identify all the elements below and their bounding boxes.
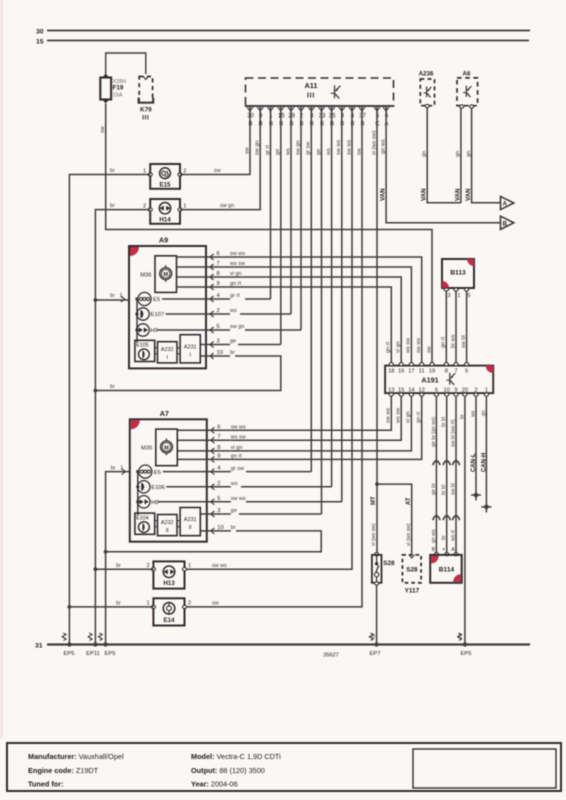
svg-text:1: 1 xyxy=(458,293,461,299)
wire br A7 pin 10 return to ground bus xyxy=(104,531,322,554)
svg-text:M36: M36 xyxy=(140,272,151,278)
wire br H14 to ground bus xyxy=(95,203,150,644)
wire gr-rt A9 pin 4 xyxy=(245,298,271,300)
svg-text:16: 16 xyxy=(398,369,404,375)
wire gn CAN-H from A191 pin 1 xyxy=(481,396,492,513)
svg-text:35627: 35627 xyxy=(323,653,339,659)
heater control unit A9 xyxy=(110,236,245,369)
svg-text:br: br xyxy=(110,168,115,174)
svg-text:6: 6 xyxy=(435,387,438,393)
svg-text:vi gn: vi gn xyxy=(396,341,402,353)
svg-text:2: 2 xyxy=(146,563,149,569)
diagram number 35627 xyxy=(323,653,339,659)
svg-text:B: B xyxy=(503,221,508,227)
svg-text:M: M xyxy=(163,272,168,278)
svg-text:Model: Vectra-C 1,9D CDTi: Model: Vectra-C 1,9D CDTi xyxy=(191,752,281,761)
ground rail 31 xyxy=(35,642,530,649)
A11 pin 2 colour label xyxy=(295,140,301,155)
svg-text:A232: A232 xyxy=(161,347,174,353)
svg-text:sw ws: sw ws xyxy=(212,563,227,569)
svg-text:sw ws: sw ws xyxy=(386,408,392,423)
label gn-rt above A191 pin 18 xyxy=(386,341,392,353)
svg-text:1: 1 xyxy=(120,465,123,471)
svg-text:33: 33 xyxy=(319,112,326,119)
fuse F19 xyxy=(100,74,126,104)
svg-text:15: 15 xyxy=(278,112,285,119)
ground point EP5 right xyxy=(458,633,472,657)
svg-text:sw: sw xyxy=(214,168,221,174)
svg-text:EP5: EP5 xyxy=(64,651,75,657)
relay K79 xyxy=(138,76,154,122)
sensor B113 xyxy=(442,259,474,299)
generator B114 xyxy=(430,547,462,583)
svg-text:10: 10 xyxy=(444,387,450,393)
horn H14 xyxy=(143,199,186,224)
wire sw-ws A9 pin 6 to A191 pin 11 xyxy=(230,257,422,363)
wire sw-ws A11 pin 3 to A7 pin 5 xyxy=(341,111,343,502)
lamp E14 xyxy=(146,598,191,625)
wire gn-ws A11 pin 6 to connector B xyxy=(386,111,500,223)
wire bridge F19 to K79 xyxy=(106,53,146,74)
svg-text:gn rt: gn rt xyxy=(416,411,422,423)
svg-text:A236: A236 xyxy=(419,71,434,78)
svg-text:vi gn: vi gn xyxy=(406,411,412,423)
svg-text:6: 6 xyxy=(217,251,220,257)
wire sw-gn A9 pin 5 xyxy=(245,329,301,331)
svg-text:A231: A231 xyxy=(184,344,197,350)
wire gn A236 to A6 xyxy=(421,108,461,203)
svg-text:A11: A11 xyxy=(305,81,318,90)
svg-text:1: 1 xyxy=(188,563,191,569)
svg-text:ws sw: ws sw xyxy=(396,407,402,424)
wire sw-gn A11 pin 2 to A9 pin 5 xyxy=(300,111,302,330)
A11 pin 8 colour label xyxy=(306,141,312,155)
A11 pin 30 colour label xyxy=(245,146,251,154)
wire sw-bl B113 to A191 pin 5 xyxy=(461,291,467,363)
wire sw-ws A11 pin 4 to H13 pin 1 xyxy=(185,111,353,569)
ground point EP5 left xyxy=(62,633,74,657)
svg-text:15: 15 xyxy=(36,38,44,45)
lamp H13 xyxy=(146,561,191,588)
svg-text:3: 3 xyxy=(217,339,220,345)
svg-text:10: 10 xyxy=(217,350,223,356)
svg-text:29: 29 xyxy=(288,112,295,119)
svg-text:20: 20 xyxy=(462,387,468,393)
svg-text:br: br xyxy=(459,414,465,419)
A11 pin 35 colour label xyxy=(326,148,332,156)
wire gr-sw A7 pin 4 xyxy=(246,471,311,473)
svg-text:A7: A7 xyxy=(160,409,169,418)
svg-text:17: 17 xyxy=(408,369,414,375)
svg-text:B113: B113 xyxy=(450,270,466,277)
A11 pin stubs xyxy=(250,106,386,112)
power rail 15 xyxy=(36,38,529,45)
A11 pin 9 colour label xyxy=(255,140,261,155)
svg-text:gr rt: gr rt xyxy=(230,293,240,299)
A11 pin 4 colour label xyxy=(346,140,352,155)
A11 pin 29 colour label xyxy=(285,148,291,156)
diode unit A236 xyxy=(419,71,435,108)
wire br to A9 pin 1 xyxy=(94,298,130,302)
info table xyxy=(7,743,561,791)
ground point EP7 xyxy=(369,633,380,657)
wire br A9 pin 10 return to ground bus xyxy=(94,356,281,392)
svg-text:15: 15 xyxy=(398,387,404,393)
svg-text:18: 18 xyxy=(388,369,394,375)
svg-text:7: 7 xyxy=(217,434,220,440)
svg-text:19: 19 xyxy=(429,369,435,375)
engine control unit A191 xyxy=(385,366,493,394)
svg-text:sw ws: sw ws xyxy=(416,338,422,353)
A11 pin 15 colour label xyxy=(275,149,281,155)
svg-text:H9: H9 xyxy=(151,328,158,334)
svg-text:30: 30 xyxy=(36,28,44,35)
svg-text:vi (ws sw): vi (ws sw) xyxy=(406,523,412,546)
svg-text:A9: A9 xyxy=(159,236,168,245)
label gn-rt below A191 pin 12 xyxy=(416,411,422,423)
svg-text:31: 31 xyxy=(35,642,43,649)
A11 pin 37 colour label xyxy=(356,147,362,155)
svg-text:Output: 88 (120) 3500: Output: 88 (120) 3500 xyxy=(191,766,265,775)
svg-text:br: br xyxy=(116,600,121,606)
svg-text:ge br: ge br xyxy=(431,483,437,495)
svg-text:H13: H13 xyxy=(163,580,175,587)
wire br H13 to ground bus xyxy=(94,563,154,571)
label sw-ws above A191 pin 11 xyxy=(416,338,422,353)
svg-text:gn: gn xyxy=(421,151,427,157)
svg-text:III: III xyxy=(307,93,315,100)
svg-text:12: 12 xyxy=(419,387,425,393)
svg-text:E5: E5 xyxy=(154,470,161,476)
wire ws A11 pin 35 to A7 pin 2 xyxy=(331,111,333,487)
svg-text:EP5: EP5 xyxy=(105,651,116,657)
wire ws CAN-L from A191 pin 2 xyxy=(470,396,481,501)
svg-text:ws: ws xyxy=(230,481,238,487)
svg-text:I: I xyxy=(189,352,191,358)
svg-text:A232: A232 xyxy=(161,520,174,526)
svg-text:gn: gn xyxy=(455,151,461,157)
wire gn-rt A7 pin 9 to A191 pin 12 xyxy=(231,396,422,459)
svg-text:K79: K79 xyxy=(140,107,152,114)
svg-text:13: 13 xyxy=(388,387,394,393)
svg-text:I: I xyxy=(166,355,168,361)
svg-text:8: 8 xyxy=(217,271,220,277)
svg-text:C: C xyxy=(375,121,380,128)
svg-text:1: 1 xyxy=(120,293,123,299)
svg-text:9: 9 xyxy=(259,112,263,119)
svg-text:br: br xyxy=(111,465,116,471)
svg-text:EP5: EP5 xyxy=(461,651,472,657)
svg-text:CAN-H: CAN-H xyxy=(482,453,488,472)
wire br-ws B113 to A191 pin 7 xyxy=(450,291,456,363)
svg-text:B114: B114 xyxy=(439,567,455,574)
svg-text:ge: ge xyxy=(231,508,237,514)
off-page connector B xyxy=(501,216,514,229)
svg-text:M: M xyxy=(164,445,169,451)
svg-text:ws sw: ws sw xyxy=(406,337,412,354)
svg-text:VAN: VAN xyxy=(454,188,461,201)
svg-text:2: 2 xyxy=(217,481,220,487)
svg-text:7: 7 xyxy=(454,369,457,375)
wire gr-sw A11 pin 8 to A7 pin 4 xyxy=(310,111,312,472)
svg-text:br: br xyxy=(110,203,115,209)
diode unit A6 xyxy=(457,71,478,109)
svg-text:Tuned for:: Tuned for: xyxy=(28,780,64,789)
svg-text:6: 6 xyxy=(217,424,220,430)
svg-text:gn ws: gn ws xyxy=(431,529,437,543)
svg-text:30: 30 xyxy=(247,112,254,119)
svg-text:CAN-L: CAN-L xyxy=(471,453,477,472)
svg-text:11: 11 xyxy=(419,369,425,375)
wire br S28 to ground EP7 xyxy=(371,585,377,645)
wire br to A7 pin 1 xyxy=(106,472,130,645)
wire sw A11 pin 37 to E14 pin 2 xyxy=(185,111,363,607)
svg-text:sw bl (ws rt): sw bl (ws rt) xyxy=(450,419,456,447)
svg-text:sw: sw xyxy=(245,146,251,154)
svg-text:Engine code: Z19DT: Engine code: Z19DT xyxy=(28,766,99,775)
wire ws A9 pin 2 xyxy=(240,313,291,315)
svg-text:sw bl: sw bl xyxy=(450,483,456,495)
svg-text:9: 9 xyxy=(454,387,457,393)
svg-text:A6: A6 xyxy=(463,71,471,78)
svg-text:2: 2 xyxy=(143,203,146,209)
svg-text:1: 1 xyxy=(146,600,149,606)
wire vi-gn A9 pin 8 to A191 pin 16 xyxy=(230,277,401,363)
svg-text:Y117: Y117 xyxy=(405,587,420,594)
svg-text:10: 10 xyxy=(217,525,223,531)
svg-text:gn rt: gn rt xyxy=(441,336,447,348)
label ws-sw below A191 pin 15 xyxy=(396,407,402,424)
svg-text:br ws: br ws xyxy=(450,334,456,348)
A11 pin 3 colour label xyxy=(336,140,342,155)
svg-text:15A: 15A xyxy=(113,92,123,98)
wire br E15 to ground bus xyxy=(69,168,150,644)
svg-text:EP11: EP11 xyxy=(86,651,100,657)
svg-text:9: 9 xyxy=(217,453,220,459)
svg-text:sw: sw xyxy=(100,125,106,133)
svg-text:1: 1 xyxy=(485,387,488,393)
svg-text:35: 35 xyxy=(329,112,336,119)
svg-text:5: 5 xyxy=(217,324,220,330)
svg-text:ws rt: ws rt xyxy=(450,529,456,541)
svg-text:+: + xyxy=(442,547,445,553)
svg-text:A191: A191 xyxy=(421,375,438,384)
svg-text:gr sw: gr sw xyxy=(231,466,244,472)
wire sw-ws A7 pin 5 xyxy=(246,501,342,503)
svg-text:gn: gn xyxy=(481,410,487,416)
wire ws A11 pin 29 to A9 pin 2 xyxy=(290,111,292,314)
svg-text:Year: 2004-06: Year: 2004-06 xyxy=(191,780,238,789)
svg-text:ws: ws xyxy=(470,410,476,417)
wire sw E15 to A11 pin 30 xyxy=(180,111,250,175)
svg-text:S28: S28 xyxy=(406,567,418,574)
control unit A11 xyxy=(245,78,394,106)
svg-text:br: br xyxy=(116,563,121,569)
svg-text:ge br (gn ws): ge br (gn ws) xyxy=(431,416,437,447)
svg-text:sw ws: sw ws xyxy=(231,496,246,502)
svg-text:H14: H14 xyxy=(159,217,171,224)
wire gn-rt B113 to A191 pin 8 xyxy=(441,291,447,363)
svg-text:br: br xyxy=(230,350,235,356)
svg-text:2: 2 xyxy=(474,387,477,393)
svg-text:A: A xyxy=(503,202,508,208)
svg-text:br: br xyxy=(441,535,447,540)
wire vi A11 pin 5 to switch S28 xyxy=(375,111,379,555)
svg-text:M35: M35 xyxy=(141,446,152,452)
svg-text:vi (ws sw): vi (ws sw) xyxy=(371,523,377,546)
ground point EP5 mid-left xyxy=(98,633,115,657)
svg-text:II: II xyxy=(166,528,169,534)
svg-text:E104: E104 xyxy=(136,516,149,522)
svg-text:VAN: VAN xyxy=(421,188,428,201)
wire gr-rt A11 pin 1 to A9 pin 4 xyxy=(270,111,272,299)
svg-text:8: 8 xyxy=(445,369,448,375)
label vi-gn below A191 pin 14 xyxy=(406,411,412,423)
svg-text:sw gn: sw gn xyxy=(230,324,244,330)
switch S28 xyxy=(371,496,395,585)
off-page connector A xyxy=(501,196,514,209)
svg-text:ge: ge xyxy=(230,339,236,345)
wire sw-bl A191 pin 9 to B114 pin A xyxy=(450,396,459,555)
wire sw-ws A7 pin 6 to A191 pin 13 xyxy=(231,396,391,430)
wire sw-gn H14 to A11 pin 9 xyxy=(180,111,260,210)
svg-text:A231: A231 xyxy=(184,517,197,523)
wire vi-gn A7 pin 8 to A191 pin 14 xyxy=(231,396,411,451)
svg-text:br: br xyxy=(110,384,115,390)
svg-text:3: 3 xyxy=(217,508,220,514)
svg-text:Manufacturer: Vauxhall/Opel: Manufacturer: Vauxhall/Opel xyxy=(28,752,124,761)
label sw above A191 pin 19 xyxy=(426,345,432,353)
wire gn A6 pin 1 xyxy=(454,108,461,203)
svg-text:gn: gn xyxy=(466,151,472,157)
svg-text:S28: S28 xyxy=(383,560,395,567)
svg-text:2: 2 xyxy=(188,600,191,606)
svg-text:EP7: EP7 xyxy=(370,651,381,657)
ground point EP11 xyxy=(86,633,100,657)
svg-text:H8: H8 xyxy=(151,500,158,506)
svg-text:E107: E107 xyxy=(151,312,165,318)
svg-text:br: br xyxy=(110,293,115,299)
svg-text:5: 5 xyxy=(217,496,220,502)
valve unit Y117 (S28) xyxy=(402,497,421,594)
svg-text:E5: E5 xyxy=(153,297,160,303)
svg-text:gn rt: gn rt xyxy=(386,341,392,353)
glow lamp E15 xyxy=(143,164,186,189)
wire br A191 pin 20 to ground EP5 xyxy=(457,396,465,645)
svg-text:14: 14 xyxy=(408,387,414,393)
svg-text:2: 2 xyxy=(217,308,220,314)
svg-text:2: 2 xyxy=(183,169,186,175)
label sw E14 wire xyxy=(212,600,219,606)
wire ws-sw A9 pin 7 to A191 pin 17 xyxy=(230,267,411,363)
svg-text:8: 8 xyxy=(217,445,220,451)
wire ws-sw A7 pin 7 to A191 pin 15 xyxy=(231,396,401,440)
label ws-sw above A191 pin 17 xyxy=(406,337,412,354)
svg-text:5: 5 xyxy=(468,293,471,299)
svg-text:F19: F19 xyxy=(113,85,124,92)
svg-text:1: 1 xyxy=(143,169,146,175)
power rail 30 xyxy=(36,28,530,35)
svg-text:1: 1 xyxy=(183,203,186,209)
svg-text:7: 7 xyxy=(217,261,220,267)
wire ge-br A191 pin 6 to B114 pin B xyxy=(431,396,440,555)
svg-text:III: III xyxy=(142,115,149,122)
svg-text:B: B xyxy=(248,121,252,128)
svg-text:3: 3 xyxy=(448,293,451,299)
wire ge A7 pin 3 xyxy=(239,513,322,515)
label sw-ws H13 wire xyxy=(212,563,227,569)
A11 connector pins xyxy=(247,107,390,127)
wire gn A6 pin 2 to connector A xyxy=(465,108,500,203)
svg-text:sw: sw xyxy=(426,345,432,353)
svg-text:br bl: br bl xyxy=(441,485,447,495)
svg-text:MT: MT xyxy=(371,496,377,505)
svg-text:B: B xyxy=(259,121,263,128)
A11 pin 6 colour label xyxy=(381,139,387,154)
svg-text:br: br xyxy=(231,525,236,531)
wire ge A9 pin 3 xyxy=(238,344,281,346)
wire gn-rt A9 pin 9 to A191 pin 18 xyxy=(230,287,391,363)
wire br-bl A191 pin 10 to B114 pin + xyxy=(441,396,450,555)
wire br E14 to ground bus xyxy=(68,600,154,608)
A11 pin 1 colour label xyxy=(265,145,271,155)
svg-text:E14: E14 xyxy=(163,617,175,624)
svg-text:AT: AT xyxy=(406,497,412,505)
svg-text:E15: E15 xyxy=(159,182,171,189)
svg-text:sw: sw xyxy=(212,600,219,606)
svg-text:br bl: br bl xyxy=(441,417,447,427)
svg-text:sw bl: sw bl xyxy=(461,335,467,348)
svg-text:VAN: VAN xyxy=(465,188,472,201)
wire ge A11 pin 15 to A9 pin 3 xyxy=(280,111,282,345)
label sw-ws below A191 pin 13 xyxy=(386,408,392,423)
svg-text:37: 37 xyxy=(359,112,366,119)
svg-text:II: II xyxy=(189,525,192,531)
svg-text:sw gn: sw gn xyxy=(255,140,261,155)
svg-text:E106: E106 xyxy=(151,485,165,491)
heater control unit A7 xyxy=(111,409,246,542)
svg-text:E105: E105 xyxy=(136,343,149,349)
svg-text:sw gn: sw gn xyxy=(220,203,234,209)
A11 pin 33 colour label xyxy=(316,149,322,155)
wire vi branch to valve Y117 xyxy=(377,484,412,554)
A11 pin 5 colour label xyxy=(371,130,377,155)
wire ws A7 pin 2 xyxy=(241,486,332,488)
wire ge A11 pin 33 to A7 pin 3 xyxy=(321,111,323,514)
A191 pins xyxy=(388,363,488,397)
svg-text:5: 5 xyxy=(465,369,468,375)
label vi-gn above A191 pin 16 xyxy=(396,341,402,353)
svg-text:ws: ws xyxy=(229,308,237,314)
wire sw F19 to A191 pin 19 xyxy=(100,104,432,364)
label VAN on A11 pin 6 wire xyxy=(379,188,386,201)
svg-text:9: 9 xyxy=(217,281,220,287)
